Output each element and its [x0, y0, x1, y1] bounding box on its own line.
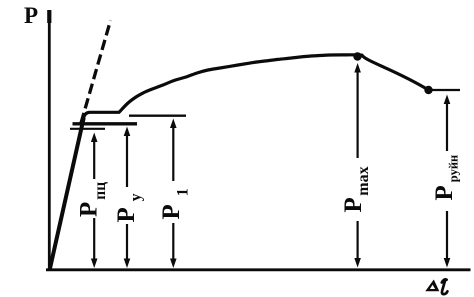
initial linear segment (thick) [50, 118, 84, 271]
dashed line (elastic continuation) [81, 21, 111, 124]
arrow P_y bottom segment [124, 224, 131, 268]
arrow P_l bottom segment [170, 223, 177, 268]
arrow P_руйн bottom segment [444, 211, 451, 268]
P_l level line [129, 114, 186, 116]
arrow P_пц top segment [91, 133, 98, 180]
y-axis [48, 10, 51, 270]
failure level line [433, 89, 461, 91]
dot at P_max point [353, 52, 361, 60]
arrow P_y top segment [124, 127, 131, 188]
P_пц level line [70, 128, 105, 130]
arrow P_пц bottom segment [91, 218, 98, 268]
arrow P_max top segment [354, 63, 361, 158]
arrow P_l top segment [170, 119, 177, 182]
arrow P_max bottom segment [354, 221, 361, 268]
curve (load-elongation) [50, 55, 429, 270]
x-axis [46, 268, 471, 271]
svg-text:P: P [24, 3, 38, 28]
arrow P_руйн top segment [444, 95, 451, 152]
P_y level line [73, 122, 138, 125]
dot at failure point [424, 86, 432, 94]
axis label Δl [425, 280, 439, 292]
